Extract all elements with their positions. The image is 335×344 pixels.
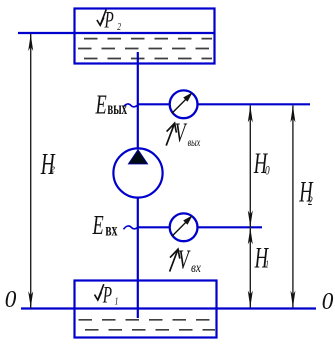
label E_out xyxy=(95,89,128,119)
svg-text:1: 1 xyxy=(265,259,269,271)
pipe lower segment xyxy=(137,196,139,318)
label H0 xyxy=(253,148,270,180)
lower gauge V_in circle xyxy=(170,213,198,241)
label P1 text xyxy=(102,283,118,308)
svg-text:г: г xyxy=(51,162,55,176)
node squiggle at E_out tap xyxy=(123,104,139,107)
node squiggle at E_in tap xyxy=(124,226,140,229)
upper tank liquid level line with left extension xyxy=(18,32,215,34)
pump U1 circle xyxy=(113,148,162,197)
upper tank T2 outline xyxy=(75,9,215,64)
label V_out text xyxy=(175,118,201,150)
svg-text:0: 0 xyxy=(322,289,334,316)
label V_in text xyxy=(178,245,201,276)
lower tank liquid dashes row 1 xyxy=(79,319,216,321)
svg-text:2: 2 xyxy=(117,21,121,32)
svg-text:1: 1 xyxy=(115,295,119,306)
label E_in xyxy=(92,209,118,240)
svg-text:P: P xyxy=(104,9,114,34)
datum line 0-0 xyxy=(21,307,316,309)
upper tank liquid dashes row 3 xyxy=(84,58,212,60)
dimension line Hg xyxy=(28,34,33,308)
svg-text:0: 0 xyxy=(5,286,17,313)
label H2 xyxy=(298,176,314,208)
wire upper gauge to right xyxy=(198,103,310,105)
label P2 arrow xyxy=(97,10,106,26)
label P2 text xyxy=(104,9,122,34)
svg-text:P: P xyxy=(102,283,112,308)
svg-text:вых: вых xyxy=(107,100,127,119)
pipe upper segment xyxy=(137,52,139,150)
dimension line H2 xyxy=(290,106,295,308)
label P1 arrow xyxy=(95,284,104,300)
svg-text:вых: вых xyxy=(188,137,201,150)
dimension line H0 / H1 xyxy=(248,106,253,308)
label Hg xyxy=(40,147,56,182)
label H1 xyxy=(254,242,270,274)
wire lower gauge to right extension xyxy=(198,226,262,228)
svg-text:2: 2 xyxy=(308,195,313,209)
label V_in arrow xyxy=(170,249,180,271)
lower tank T1 outline xyxy=(75,281,217,338)
svg-text:вх: вх xyxy=(191,260,201,275)
svg-text:E: E xyxy=(95,89,107,119)
upper gauge needle xyxy=(172,92,193,113)
upper tank liquid dashes row 2 xyxy=(78,48,212,50)
pump flow triangle xyxy=(128,150,147,164)
upper gauge V_out circle xyxy=(170,90,198,118)
wire pipe to lower gauge xyxy=(138,226,170,228)
svg-text:вх: вх xyxy=(105,221,117,240)
wire pipe to upper gauge xyxy=(138,103,170,105)
lower tank liquid dashes row 2 xyxy=(85,329,215,331)
upper tank liquid dashes row 1 xyxy=(84,38,212,40)
lower gauge needle xyxy=(172,215,193,236)
svg-text:0: 0 xyxy=(265,164,270,178)
svg-text:E: E xyxy=(92,209,104,239)
label V_out arrow xyxy=(166,123,176,145)
